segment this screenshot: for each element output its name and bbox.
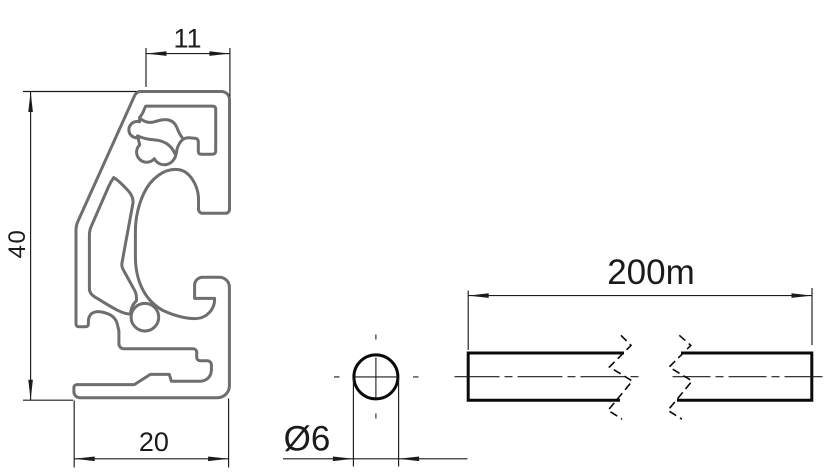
rod left break zigzag [608,335,632,419]
circle crosshair vertical [375,358,377,398]
dimension diameter 6: extension lines [353,379,398,467]
profile top cavity arch squiggle [141,119,182,137]
rod left centerline [455,376,639,378]
rod right break zigzag [668,335,692,419]
rod left piece outline [468,353,624,400]
dimension diameter 6: right arrow [399,457,420,462]
profile screw boss circle [131,303,159,331]
svg-text:11: 11 [173,24,201,54]
dimension 200m: left arrow [468,293,489,298]
dimension 20: dimension line [74,458,228,460]
svg-text:40: 40 [4,229,31,259]
profile top cavity main part [129,106,216,165]
dimension 40: top arrow [28,92,33,113]
circle crosshair horizontal [355,376,398,378]
dimension 200m: extension lines [468,288,812,350]
dimension 20: extension lines [74,399,228,468]
dimension diameter 6: dimension line [283,458,468,460]
svg-text:Ø6: Ø6 [284,420,331,459]
circle centerline dashes [334,335,419,419]
profile top cavity snake top stroke [138,136,176,155]
dimension 11: right arrow [209,51,230,56]
rod right piece outline [677,353,812,400]
profile diagonal cavity [89,178,136,315]
dimension 200m: right arrow [792,293,813,298]
dimension 200m: dimension line [468,295,812,297]
dimension diameter 6: left arrow [333,457,354,462]
dimension 40: extension lines [23,92,137,401]
dimension 11: left arrow [146,51,167,56]
dimension 40: bottom arrow [28,380,33,401]
dimension 20: left arrow [74,457,95,462]
rod right centerline [673,376,827,378]
dimension 40: dimension line [30,92,32,401]
dimension 11: extension lines [146,48,230,97]
svg-text:200m: 200m [607,253,695,292]
rod cross-section circle [354,355,398,399]
profile outer contour [74,92,230,398]
dimension 11: dimension line [146,53,230,55]
svg-text:20: 20 [139,427,169,457]
dimension 20: right arrow [208,457,229,462]
